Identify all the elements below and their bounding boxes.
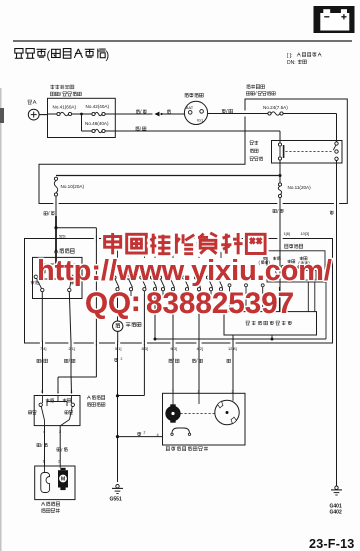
wire 蓝/黑 fuse11 down to control unit <box>279 198 281 312</box>
motor shaft dashed <box>181 413 215 415</box>
label 关闭 left <box>28 411 31 414</box>
svg-text:1: 1 <box>172 387 174 392</box>
wire control unit to motor pin3 <box>232 335 234 393</box>
title 电路图(溜背式轿车) <box>15 49 23 59</box>
svg-text:12[8]: 12[8] <box>228 346 237 351</box>
label 助手席侧车窗电机 <box>41 502 45 506</box>
regulator bracket <box>41 473 50 493</box>
wires driver section to control unit <box>307 282 309 312</box>
svg-text:4[2]: 4[2] <box>197 346 204 351</box>
wire contact 173 down <box>172 294 174 343</box>
wire 蓝 label <box>227 359 231 362</box>
svg-text:5[5]: 5[5] <box>59 233 66 238</box>
label 向上 <box>31 280 35 284</box>
contact low-right <box>68 288 71 291</box>
contact up-right <box>70 275 73 278</box>
wire 黑 ground lead <box>117 343 119 482</box>
ground G401 G402 <box>335 486 338 489</box>
svg-text:No.10(20A): No.10(20A) <box>61 184 85 189</box>
wire to driver motor pin4 <box>118 436 163 438</box>
battery B1 电瓶 <box>28 100 32 104</box>
svg-text:1: 1 <box>43 458 45 463</box>
wire node down to fuse46 row <box>81 114 83 131</box>
master switch 主开关 box <box>25 239 333 344</box>
switch levers <box>41 406 44 419</box>
master switch id circle 主开关 <box>113 321 123 331</box>
wire 蓝/黄 <box>42 343 44 394</box>
svg-text:http://www.yixiu.com/: http://www.yixiu.com/ <box>37 255 332 287</box>
contacts above control unit <box>228 284 231 287</box>
wire 黑 from pin 8 to ground node <box>143 343 145 396</box>
wire 蓝/绿 <box>70 343 72 374</box>
label 驾驶席侧车窗电机 <box>166 447 169 451</box>
svg-text:2: 2 <box>121 357 123 361</box>
rocker mechanism box <box>39 264 78 279</box>
svg-text:No.11(20A): No.11(20A) <box>288 185 312 190</box>
node junction fuses 41/42/46 <box>80 113 83 116</box>
node B junction green/black <box>54 226 57 229</box>
svg-text:2: 2 <box>58 458 60 463</box>
node bus-center <box>271 338 274 341</box>
wire to 蓝/黄 pin <box>41 292 43 343</box>
under-hood fuse/relay box 发动机罩下保险/继电器盒 <box>50 85 54 90</box>
wire 绿/黑 fuse10 down to master switch <box>55 196 57 264</box>
under-dash fuse/relay box 仪表板下保险/继电器盒 <box>247 85 250 89</box>
svg-text:BAT: BAT <box>186 105 194 110</box>
wire control unit to bus node <box>271 335 273 339</box>
node bus-left <box>154 338 157 341</box>
motor M <box>58 470 68 487</box>
node ground-1 <box>116 394 119 397</box>
edge gaps where wires cross box outlines <box>94 237 99 239</box>
wire 红/黄 to driver motor pin1 <box>172 343 174 393</box>
svg-text:838825397: 838825397 <box>146 287 294 320</box>
svg-text:[ ]:: [ ]: <box>287 53 293 59</box>
label 关闭 right <box>65 411 68 414</box>
contact low-left <box>41 288 44 291</box>
contact up-left <box>34 275 37 278</box>
wire fuse42 to box edge <box>105 113 115 115</box>
svg-text:No.41(60A): No.41(60A) <box>53 105 77 110</box>
svg-text:G551: G551 <box>110 497 122 503</box>
wires inside motor box <box>172 393 174 406</box>
relay coil <box>278 143 281 146</box>
passenger window motor 助手席侧车窗电机 <box>35 466 75 500</box>
svg-text:IG1: IG1 <box>197 118 204 123</box>
node A junction <box>279 174 282 177</box>
power window relay 电动车窗继电器 <box>250 141 253 145</box>
bracket <box>172 428 190 434</box>
wire 黑/黄 to under-dash box <box>208 113 268 115</box>
svg-text:3: 3 <box>70 389 72 394</box>
contact right <box>71 403 74 406</box>
wire contact 199 down <box>198 294 200 343</box>
relay dashed link <box>285 151 332 153</box>
page left scan edge <box>0 88 2 551</box>
power window control unit 电动车窗控制装置 <box>224 312 317 335</box>
branch wire node B to pin 1 route <box>56 227 96 229</box>
master switch center contact groups <box>113 276 116 279</box>
svg-text:2[1]: 2[1] <box>69 346 76 351</box>
wire to 蓝/绿 pin <box>69 292 71 343</box>
svg-text:No.24(7.5A): No.24(7.5A) <box>263 105 288 110</box>
bus wire under control unit <box>155 338 326 340</box>
wire relay contact down out of box <box>336 161 338 487</box>
svg-text:): ) <box>106 50 110 62</box>
ground G551 <box>116 485 119 488</box>
svg-text:QQ: QQ <box>85 287 131 320</box>
contact left <box>39 403 42 406</box>
connector arrow <box>154 112 159 117</box>
svg-text:5: 5 <box>41 389 43 394</box>
svg-text:G402: G402 <box>330 510 342 516</box>
wire 红/绿 to driver motor pin2 <box>198 343 200 393</box>
motor symbol <box>170 404 175 406</box>
regulator wheel <box>215 400 239 424</box>
label 向下 <box>70 280 74 284</box>
svg-text:No.42(40A): No.42(40A) <box>86 104 110 109</box>
driver section contacts <box>272 265 275 268</box>
master switch upper pin stubs <box>117 248 119 259</box>
wire battery to fuse box <box>39 114 47 116</box>
svg-text:(: ( <box>47 50 51 62</box>
svg-text:DN:: DN: <box>287 60 296 66</box>
driver auto-down solenoid <box>303 271 316 281</box>
svg-text:No.46(40A): No.46(40A) <box>85 121 109 126</box>
top rule <box>13 40 352 42</box>
battery icon top-right <box>314 6 355 33</box>
wire contact to master switch circle to bottom <box>117 294 119 321</box>
wire contact 155 to bus <box>154 294 156 339</box>
wire contact 144 down <box>143 294 145 343</box>
wire fuse46 to box edge <box>105 130 115 132</box>
watermark line1 中国维修资料网 <box>105 233 121 254</box>
switch rocker <box>42 396 44 404</box>
svg-text:23-F-13: 23-F-13 <box>309 537 355 551</box>
wire relay coil to node A <box>279 160 281 183</box>
pin IG1 <box>200 110 204 114</box>
svg-text:M: M <box>61 477 65 483</box>
relay contacts <box>335 142 338 145</box>
svg-text:6[3]: 6[3] <box>171 346 178 351</box>
wire fuse24 to right then down to relay contact <box>283 113 336 115</box>
passenger-side section 助手席侧 sub-box <box>54 249 58 253</box>
wire 白/黑 row <box>115 113 152 115</box>
feed wire node A to fuse No.10 <box>56 175 280 177</box>
wire 白/蓝 row to relay coil <box>115 130 280 132</box>
wire fuse41 to node <box>72 113 92 115</box>
wires to passenger motor <box>44 426 46 466</box>
svg-text:10[3]: 10[3] <box>301 231 310 236</box>
wire into fuse No.41 <box>48 113 57 115</box>
driver-side section 驾驶席侧 sub-box <box>285 244 288 248</box>
motor wires inside box <box>44 466 46 473</box>
svg-text:5[1]: 5[1] <box>115 346 122 351</box>
node ground-2 <box>116 435 119 438</box>
ignition switch 点火开关 <box>185 93 189 97</box>
svg-text:1: 1 <box>57 389 59 394</box>
svg-text:2: 2 <box>144 431 146 435</box>
wire driver section right to bus <box>325 282 327 339</box>
svg-text:1[6]: 1[6] <box>284 231 291 236</box>
svg-text:7[4]: 7[4] <box>40 346 47 351</box>
